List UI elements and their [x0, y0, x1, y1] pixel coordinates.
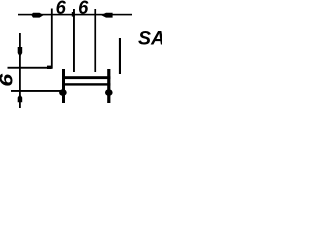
svg-text:SA: SA [138, 28, 162, 50]
svg-text:6: 6 [78, 0, 89, 19]
svg-text:6: 6 [0, 73, 17, 87]
svg-text:6: 6 [56, 0, 67, 19]
